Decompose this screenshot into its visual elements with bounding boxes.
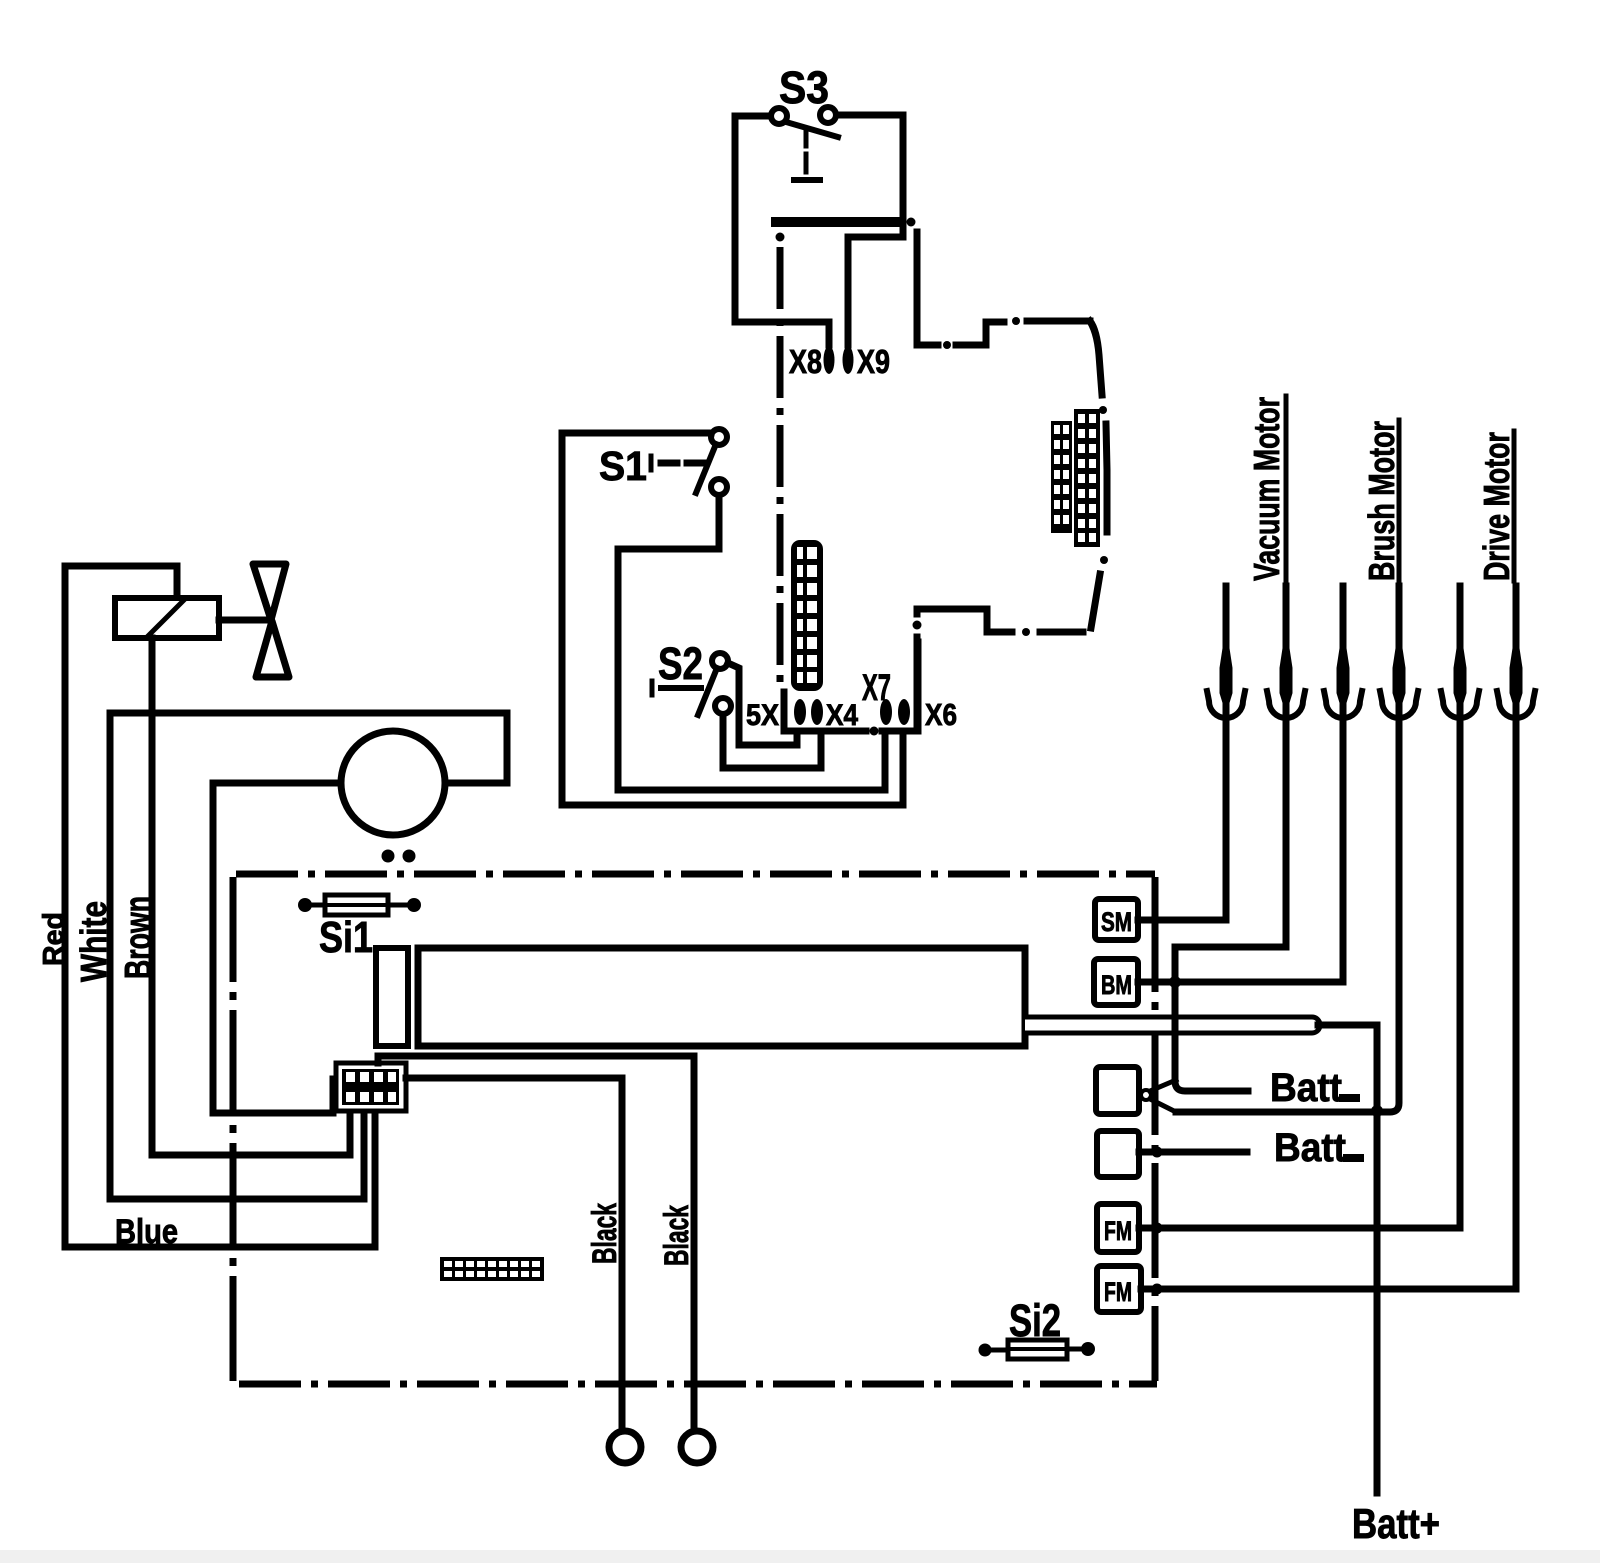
wire Red vertical bbox=[62, 566, 69, 1247]
switch S1 linkage dashes bbox=[651, 456, 704, 470]
wire S2 top to X5 bbox=[728, 663, 797, 745]
node FM2 junction bbox=[1152, 1284, 1163, 1295]
svg-text:SM: SM bbox=[1101, 907, 1132, 937]
terminal X9 label bbox=[857, 343, 890, 380]
svg-text:FM: FM bbox=[1104, 1277, 1132, 1307]
wire FM1 to drive motor a bbox=[1139, 586, 1460, 1228]
wire terminal bus left bbox=[784, 692, 866, 731]
connector J2 block bbox=[1074, 409, 1100, 547]
wire S1 bottom contact to X7 bbox=[618, 496, 719, 789]
fuse Si1 dot right bbox=[407, 898, 421, 912]
terminal X4 label bbox=[826, 699, 858, 732]
switch S3 contact circle left bbox=[771, 108, 787, 124]
wire Red bottom run bbox=[65, 1108, 375, 1247]
wire motor box top bbox=[110, 713, 507, 783]
wire Batt plus vertical bbox=[1374, 1105, 1381, 1493]
svg-text:Batt: Batt bbox=[1274, 1126, 1346, 1170]
fan symbol blade bottom bbox=[256, 621, 289, 677]
terminal Black 2 ring bbox=[681, 1431, 713, 1463]
wire S1 top horizontal bbox=[562, 430, 711, 437]
svg-text:Blue: Blue bbox=[115, 1213, 178, 1251]
wire S2 bottom to X4 bbox=[723, 715, 821, 768]
plug symbol wire 3 bbox=[1324, 645, 1362, 718]
label Red bbox=[38, 912, 70, 966]
terminal X7 pin b bbox=[898, 699, 910, 725]
relay K1 body bbox=[115, 598, 219, 638]
svg-text:X9: X9 bbox=[857, 343, 890, 380]
node FM1 junction bbox=[1152, 1223, 1163, 1234]
wire White bottom run bbox=[110, 1108, 364, 1199]
switch S2 contact circle bottom bbox=[715, 698, 731, 714]
wire X7 horizontal run bbox=[618, 733, 885, 790]
motor M1 circle bbox=[341, 731, 445, 835]
wire relay to fan bbox=[219, 617, 270, 624]
switch S3 lever bbox=[786, 122, 838, 137]
wire FM2 to drive motor b bbox=[1141, 586, 1516, 1289]
connector BM box bbox=[1094, 959, 1138, 1005]
label Vacuum Motor bbox=[1246, 397, 1287, 581]
scan edge band bottom bbox=[0, 1550, 1600, 1563]
wire S3 left loop bbox=[735, 116, 769, 320]
plug symbol wire 4 bbox=[1380, 645, 1418, 718]
terminal X4 pin b bbox=[811, 699, 823, 725]
terminal X8 pin bbox=[824, 346, 835, 374]
svg-text:Si1: Si1 bbox=[319, 913, 373, 962]
fan symbol blade top bbox=[253, 564, 286, 620]
switch S2 linkage dash bbox=[652, 681, 701, 695]
fuse Si2 dot left bbox=[979, 1344, 992, 1357]
svg-text:X6: X6 bbox=[925, 697, 957, 732]
controller dash-dot frame left bbox=[230, 877, 237, 1384]
wire Black 1 run bbox=[406, 1078, 622, 1430]
wire S1 outer left vertical bbox=[559, 433, 566, 805]
wire drive motor feed to arrow bbox=[1176, 586, 1399, 1112]
fuse Si1 dot left bbox=[298, 898, 312, 912]
connector Batt minus box 2 bbox=[1097, 1131, 1139, 1177]
svg-text:Black: Black bbox=[586, 1203, 624, 1264]
label Drive Motor underline bbox=[1512, 431, 1517, 581]
wire SM to vacuum motor bbox=[1138, 586, 1226, 920]
svg-text:X4: X4 bbox=[826, 699, 858, 732]
label Batt minus 1 bbox=[1270, 1066, 1360, 1110]
svg-text:S1: S1 bbox=[599, 443, 647, 489]
node thick bar under S3 bbox=[776, 217, 899, 227]
svg-text:Brown: Brown bbox=[118, 896, 160, 979]
switch S2 lever bbox=[698, 668, 717, 715]
svg-text:Vacuum Motor: Vacuum Motor bbox=[1246, 397, 1287, 581]
fuse Si2 body bbox=[991, 1340, 1081, 1359]
connector FM label 1 bbox=[1104, 1216, 1132, 1246]
svg-text:Brush Motor: Brush Motor bbox=[1361, 421, 1402, 581]
svg-text:Drive Motor: Drive Motor bbox=[1476, 432, 1517, 581]
svg-text:X8: X8 bbox=[789, 343, 822, 380]
svg-text:White: White bbox=[73, 901, 114, 982]
controller dash-dot frame right bbox=[1152, 877, 1159, 1381]
wire BM to brush motor b bbox=[1138, 586, 1343, 982]
wire Brown bottom run bbox=[152, 1108, 350, 1155]
wire Black 2 run bbox=[378, 1056, 694, 1430]
terminal 5X label bbox=[746, 699, 779, 732]
label Brush Motor bbox=[1361, 421, 1402, 581]
wire Brown vertical bbox=[149, 638, 156, 1155]
terminal X6 label bbox=[925, 697, 957, 732]
connector X2 block outer bbox=[336, 1063, 406, 1111]
svg-text:S2: S2 bbox=[658, 638, 703, 689]
wire outer bottom to X6 bbox=[562, 733, 903, 805]
wire S3 top right bbox=[837, 115, 903, 234]
wire center dash-dot vertical bbox=[776, 233, 785, 693]
wire motor left run bbox=[213, 783, 340, 1113]
connector X1 small grid bbox=[440, 1257, 544, 1281]
bus bar from controller bbox=[1025, 1017, 1320, 1033]
plug symbol wire 1 bbox=[1207, 645, 1245, 718]
fuse Si1 label bbox=[319, 913, 373, 962]
fuse Si1 body bbox=[312, 895, 407, 915]
wire S3 right to X9 bbox=[848, 237, 903, 345]
fuse Si2 label bbox=[1009, 1295, 1061, 1346]
terminal Black 1 ring bbox=[609, 1431, 641, 1463]
fuse Si2 dot right bbox=[1081, 1342, 1095, 1356]
label White bbox=[73, 901, 114, 982]
svg-text:Red: Red bbox=[38, 912, 70, 966]
wire S3 left to X8 bbox=[735, 322, 829, 345]
wire bus bar to Batt plus bbox=[1318, 1025, 1377, 1105]
label Drive Motor bbox=[1476, 432, 1517, 581]
switch S1 contact circle bottom bbox=[711, 479, 727, 495]
switch S1 lever bbox=[696, 444, 716, 493]
switch S1 label bbox=[599, 443, 647, 489]
terminal X7 pin a bbox=[880, 699, 892, 725]
plug symbol wire 2 bbox=[1267, 645, 1305, 718]
switch S3 contact circle right bbox=[820, 107, 836, 123]
label Vacuum Motor underline bbox=[1284, 396, 1289, 581]
node BM branch junction bbox=[1169, 976, 1181, 988]
connector FM box 1 bbox=[1097, 1204, 1139, 1252]
machine boundary lower link bbox=[917, 609, 1083, 636]
controller long box bbox=[418, 948, 1025, 1046]
svg-text:Batt: Batt bbox=[1270, 1066, 1342, 1110]
wire terminal bus right bbox=[882, 642, 918, 731]
label Batt minus 2 bbox=[1274, 1126, 1364, 1170]
terminal X4 pin a bbox=[794, 699, 806, 725]
terminal X9 pin bbox=[843, 346, 854, 374]
connector X2 block inner bbox=[342, 1069, 399, 1105]
node Batt plus junction bbox=[1371, 1105, 1383, 1117]
svg-text:FM: FM bbox=[1104, 1216, 1132, 1246]
switch S2 contact circle top bbox=[712, 653, 728, 669]
wire BM junction down to Batt minus node bbox=[1175, 982, 1248, 1091]
label Brown bbox=[118, 896, 160, 979]
switch S2 label bbox=[658, 638, 703, 689]
label Black 1 bbox=[586, 1203, 624, 1264]
wire BM branch to vacuum motor b bbox=[1175, 586, 1286, 982]
terminal X8 label bbox=[789, 343, 822, 380]
connector SM box bbox=[1095, 899, 1138, 940]
machine boundary upper link bbox=[907, 218, 1091, 350]
relay K1 diagonal bbox=[148, 600, 184, 636]
svg-text:S3: S3 bbox=[779, 62, 829, 113]
connector FM box 2 bbox=[1097, 1266, 1141, 1312]
connector BM label bbox=[1101, 970, 1132, 1000]
switch S3 label bbox=[779, 62, 829, 113]
svg-text:5X: 5X bbox=[746, 699, 779, 732]
label Blue bbox=[115, 1213, 178, 1251]
controller dash-dot frame bottom bbox=[239, 1381, 1157, 1388]
relay K1 wire top bbox=[65, 566, 177, 598]
plug symbol wire 6 bbox=[1497, 645, 1535, 718]
label Black 2 bbox=[658, 1205, 696, 1266]
controller narrow box bbox=[376, 948, 408, 1046]
node Batt minus 2 junction bbox=[1152, 1147, 1163, 1158]
motor M1 brush dot a bbox=[382, 850, 395, 863]
svg-text:Batt+: Batt+ bbox=[1352, 1500, 1440, 1547]
node bus dot bbox=[870, 727, 879, 736]
connector SM label bbox=[1101, 907, 1132, 937]
machine boundary right edge bbox=[1090, 321, 1108, 628]
controller dash-dot frame top bbox=[236, 871, 1155, 878]
label Batt plus bbox=[1352, 1500, 1440, 1547]
switch S3 actuator symbol bbox=[794, 128, 820, 180]
svg-text:Black: Black bbox=[658, 1205, 696, 1266]
plug symbol wire 5 bbox=[1441, 645, 1479, 718]
connector Batt minus box 1 bbox=[1096, 1067, 1139, 1114]
wire Batt minus 2 lead bbox=[1139, 1149, 1247, 1156]
connector X3 strip bbox=[791, 540, 823, 691]
switch S1 contact circle top bbox=[711, 429, 727, 445]
wire White vertical bbox=[107, 713, 114, 1199]
motor M1 brush dot b bbox=[403, 850, 416, 863]
wire boundary left vertical to X6 bbox=[913, 609, 922, 731]
connector J1 block bbox=[1051, 421, 1072, 533]
connector FM label 2 bbox=[1104, 1277, 1132, 1307]
label Brush Motor underline bbox=[1397, 420, 1402, 581]
terminal X7 label bbox=[862, 667, 891, 708]
svg-text:BM: BM bbox=[1101, 970, 1132, 1000]
node Batt minus arrow bbox=[1141, 1080, 1176, 1112]
